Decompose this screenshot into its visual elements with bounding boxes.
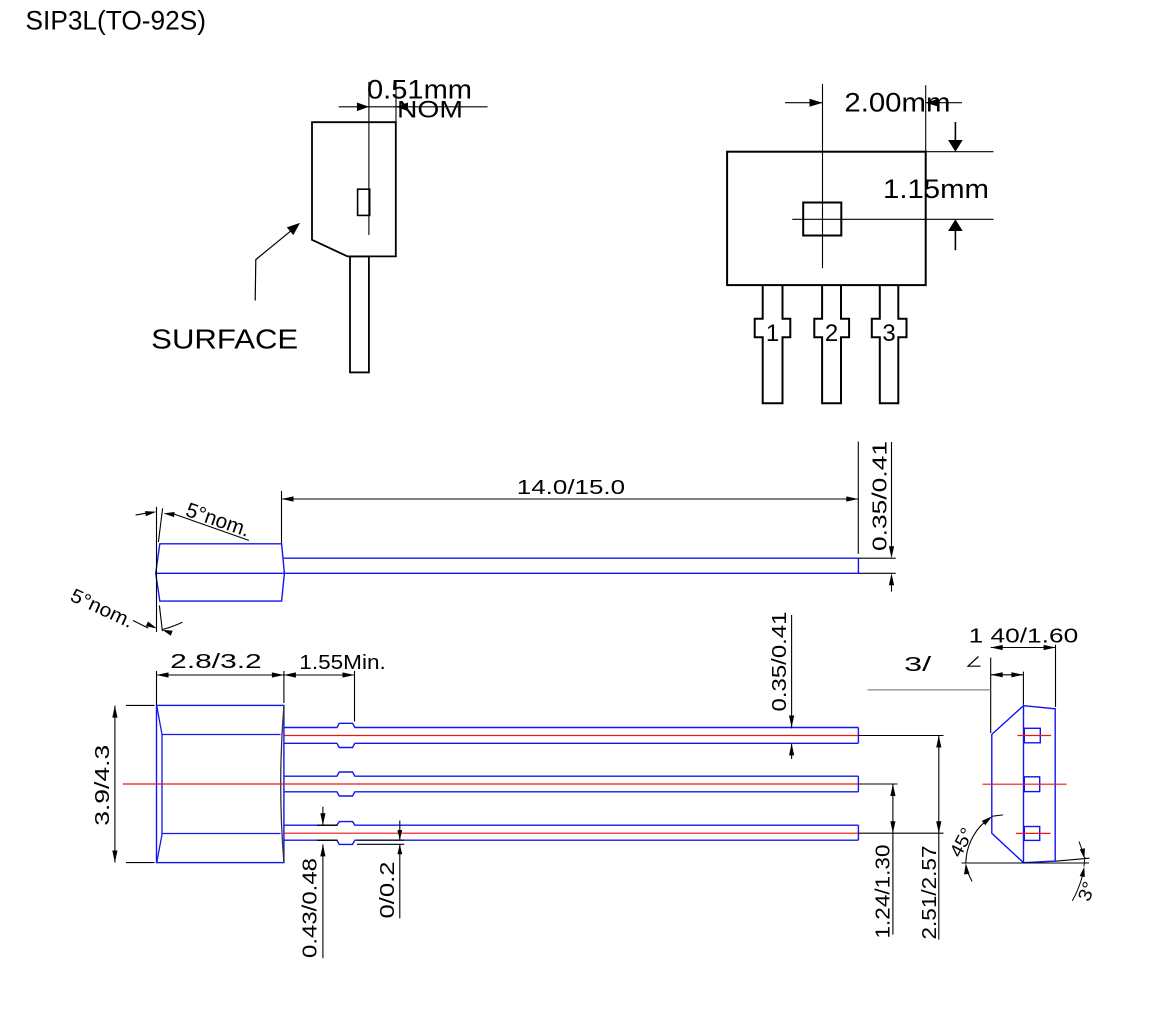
svg-text:3: 3 bbox=[882, 320, 895, 347]
svg-text:1: 1 bbox=[766, 320, 779, 347]
svg-text:1.15mm: 1.15mm bbox=[883, 174, 989, 204]
svg-text:1 40/1.60: 1 40/1.60 bbox=[969, 625, 1079, 648]
svg-text:0.43/0.48: 0.43/0.48 bbox=[299, 858, 322, 958]
svg-text:SURFACE: SURFACE bbox=[151, 324, 298, 355]
svg-text:2.51/2.57: 2.51/2.57 bbox=[918, 846, 941, 940]
svg-text:2.8/3.2: 2.8/3.2 bbox=[170, 650, 262, 673]
svg-text:SIP3L(TO-92S): SIP3L(TO-92S) bbox=[26, 6, 207, 36]
svg-text:0.35/0.41: 0.35/0.41 bbox=[768, 612, 791, 712]
svg-text:0/0.2: 0/0.2 bbox=[376, 862, 399, 919]
svg-text:1.55Min.: 1.55Min. bbox=[299, 651, 386, 674]
svg-text:NOM: NOM bbox=[397, 97, 463, 124]
svg-text:3/: 3/ bbox=[904, 653, 931, 676]
svg-text:3.9/4.3: 3.9/4.3 bbox=[91, 745, 114, 826]
svg-text:2: 2 bbox=[825, 320, 838, 347]
svg-text:14.0/15.0: 14.0/15.0 bbox=[517, 476, 625, 499]
svg-text:2.00mm: 2.00mm bbox=[844, 88, 950, 118]
svg-text:0.35/0.41: 0.35/0.41 bbox=[868, 441, 891, 551]
svg-text:1.24/1.30: 1.24/1.30 bbox=[872, 845, 895, 939]
